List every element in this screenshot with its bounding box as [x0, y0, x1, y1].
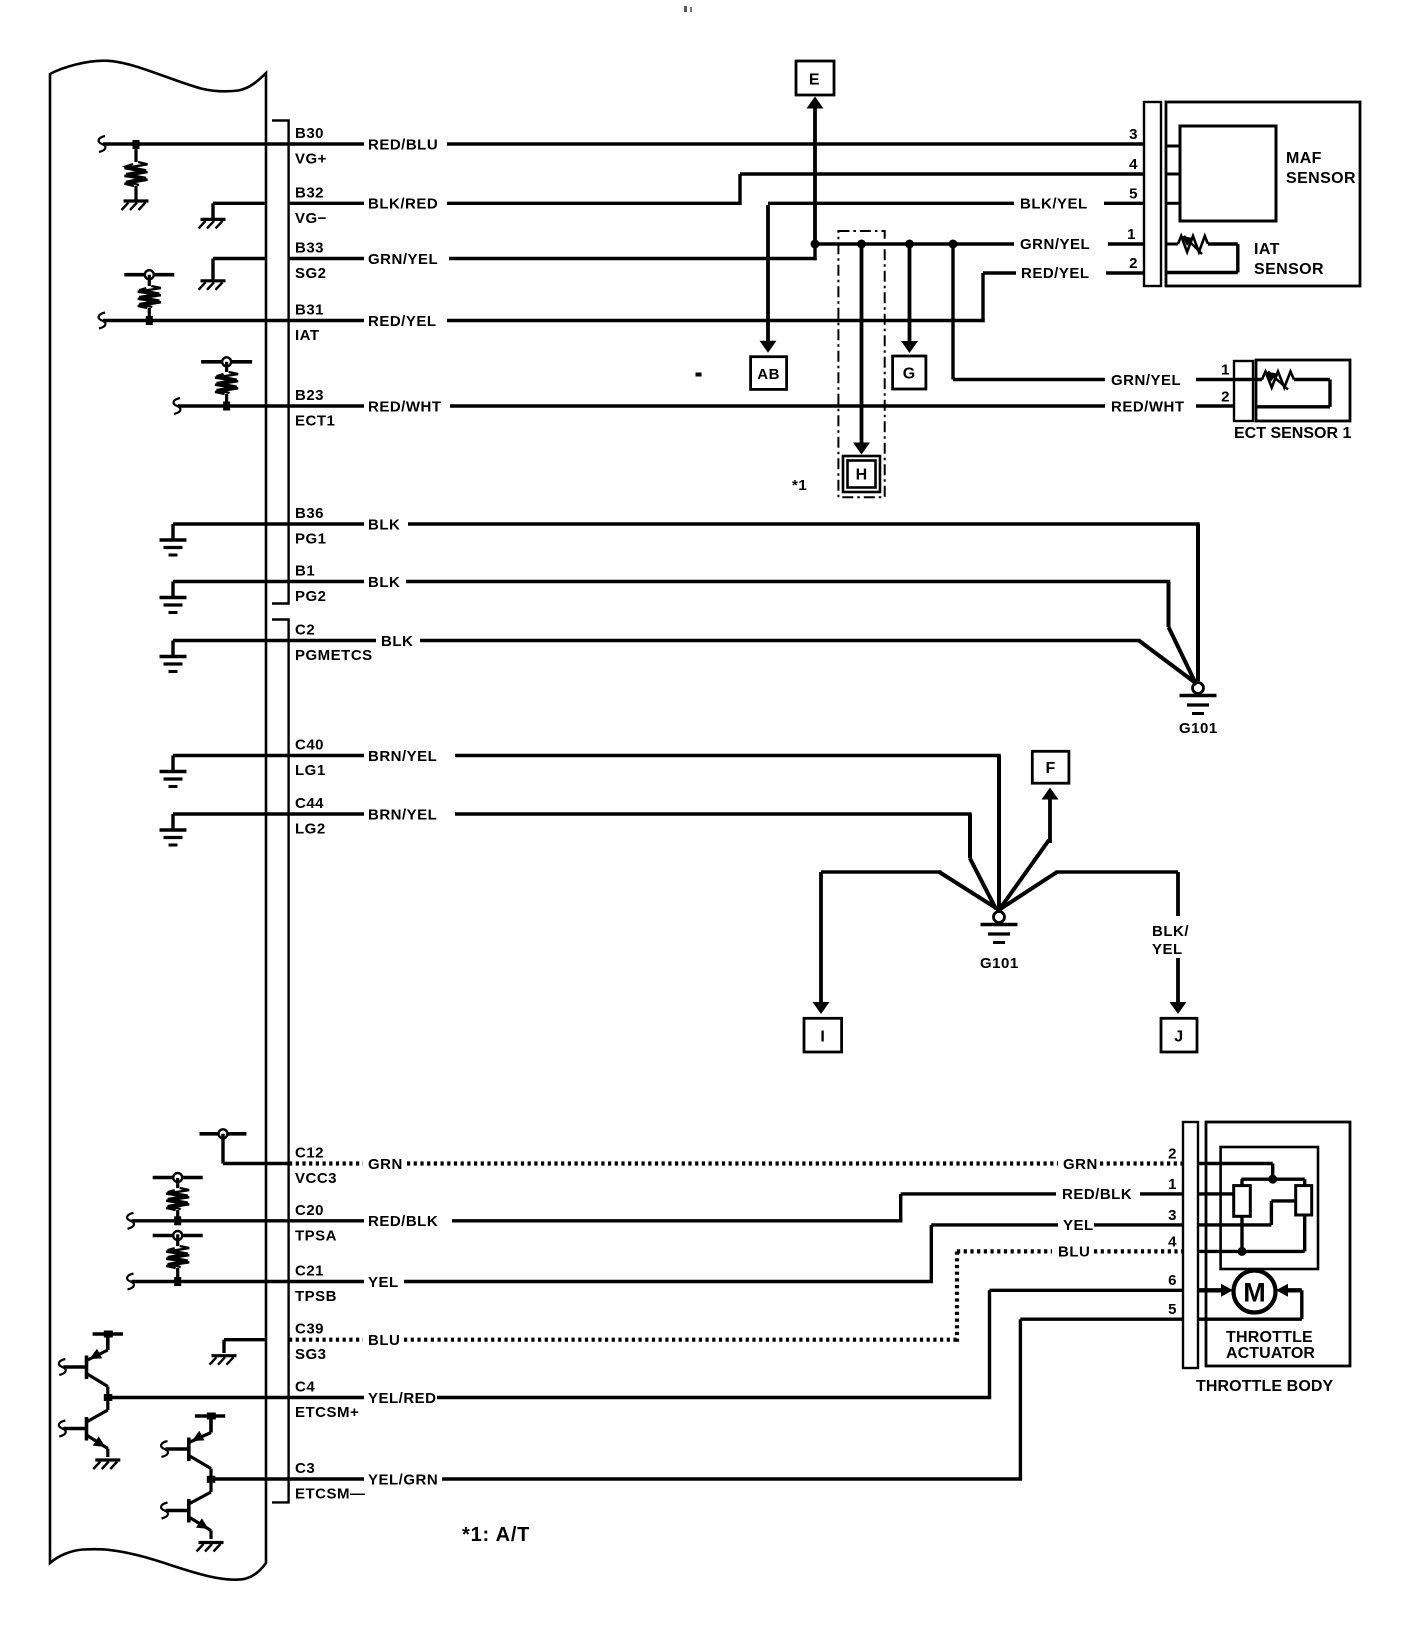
svg-text:PG2: PG2 — [295, 588, 327, 605]
svg-text:SENSOR: SENSOR — [1286, 170, 1356, 187]
svg-text:B23: B23 — [295, 387, 324, 404]
wire B31 IAT internal segment — [99, 313, 106, 329]
wire BLK/YEL to MAF pin 5 — [768, 202, 1014, 205]
node junction dots on GRN/YEL bus — [811, 240, 820, 249]
svg-text:RED/YEL: RED/YEL — [368, 313, 437, 330]
MAF sensing element — [1180, 126, 1276, 221]
svg-text:C40: C40 — [295, 737, 324, 754]
node ETCSM+ junction — [104, 1394, 113, 1401]
wire BRN/YEL LG2 to G101 — [455, 812, 972, 815]
svg-text:GRN/YEL: GRN/YEL — [1020, 236, 1090, 253]
transistor Q1 (upper, ETCSM+) — [59, 1359, 66, 1375]
svg-text:G101: G101 — [980, 955, 1019, 972]
svg-text:ECT1: ECT1 — [295, 413, 335, 430]
svg-text:YEL: YEL — [368, 1274, 399, 1291]
svg-text:VG+: VG+ — [295, 151, 327, 168]
svg-text:G101: G101 — [1179, 720, 1218, 737]
connector J — [1161, 1018, 1197, 1052]
svg-text:BLU: BLU — [368, 1332, 400, 1349]
wire C4 ETCSM+ internal segment — [108, 1396, 364, 1399]
wire C40 LG1 internal segment — [173, 754, 364, 757]
resistor on TPSA line — [166, 1188, 189, 1210]
svg-text:1: 1 — [1127, 226, 1136, 243]
wire RED/BLU to MAF pin 3 — [447, 142, 1144, 145]
svg-text:E: E — [809, 72, 820, 89]
svg-text:B33: B33 — [295, 240, 324, 257]
wire GRN dotted to throttle body pin 2 — [407, 1161, 1058, 1165]
svg-text:B30: B30 — [295, 125, 324, 142]
TPS element A — [1234, 1186, 1251, 1217]
wire BRN/YEL LG1 to G101 — [455, 754, 1001, 757]
ground for VG+ resistor (hatched) — [124, 199, 149, 202]
svg-text:3: 3 — [1129, 126, 1138, 143]
arrow to connector G — [908, 244, 912, 345]
arrow to connector E — [813, 106, 817, 244]
svg-text:B31: B31 — [295, 302, 324, 319]
svg-text:6: 6 — [1168, 1272, 1177, 1289]
svg-text:YEL/RED: YEL/RED — [368, 1390, 437, 1407]
wire branch to connector J (BLK/YEL) — [998, 872, 1057, 911]
ground PGMETCS — [171, 641, 174, 657]
supply VCC3 — [200, 1132, 247, 1136]
arrow to connector AB (BLK/YEL) — [766, 205, 770, 345]
pull-up supply for TPSA — [153, 1176, 203, 1180]
wire C3 ETCSM- internal segment — [211, 1477, 364, 1480]
svg-text:C3: C3 — [295, 1460, 315, 1477]
transistor Q2 (lower, ETCSM+) — [59, 1421, 66, 1437]
svg-text:B36: B36 — [295, 505, 324, 522]
svg-text:H: H — [856, 466, 868, 483]
svg-text:1: 1 — [1221, 362, 1230, 379]
svg-text:*1: A/T: *1: A/T — [462, 1524, 530, 1546]
wire RED/BLK step up to throttle pin 1 — [452, 1219, 902, 1222]
svg-text:C44: C44 — [295, 795, 324, 812]
svg-text:3: 3 — [1168, 1207, 1177, 1224]
svg-text:TPSB: TPSB — [295, 1288, 337, 1305]
svg-text:LG1: LG1 — [295, 762, 326, 779]
wire GRN/YEL riser to node — [449, 257, 817, 260]
transistor Q4 (lower, ETCSM-) — [161, 1503, 168, 1519]
MAF sensor connector bar — [1144, 102, 1161, 286]
svg-text:BLU: BLU — [1058, 1244, 1090, 1261]
ground G101 (center) — [994, 912, 1005, 923]
svg-text:2: 2 — [1129, 255, 1138, 272]
svg-text:PGMETCS: PGMETCS — [295, 647, 373, 664]
svg-text:THROTTLE BODY: THROTTLE BODY — [1196, 1378, 1334, 1395]
svg-text:2: 2 — [1168, 1146, 1177, 1163]
wire YEL step up to throttle pin 3 — [404, 1280, 933, 1283]
svg-text:RED/YEL: RED/YEL — [1021, 265, 1090, 282]
ECM connector bracket C (pins C2-C3) — [272, 620, 289, 1503]
svg-text:J: J — [1174, 1029, 1183, 1046]
wire B23 ECT1 internal segment — [174, 398, 181, 414]
wire C2 PGMETCS internal segment — [173, 639, 376, 642]
supply rail for ETCSM driver 1 — [93, 1332, 123, 1335]
svg-text:G: G — [903, 366, 916, 383]
svg-text:5: 5 — [1129, 185, 1138, 202]
ground SG2 (hatched) — [213, 257, 266, 260]
wire RED/WHT to ECT sensor pin 2 — [450, 404, 1105, 407]
svg-text:VCC3: VCC3 — [295, 1170, 337, 1187]
svg-text:2: 2 — [1221, 389, 1230, 406]
resistor on VG+ line — [133, 140, 140, 149]
TPS wiper wire (pin 3) — [1198, 1223, 1271, 1226]
connector I — [804, 1018, 842, 1052]
svg-text:SENSOR: SENSOR — [1254, 261, 1324, 278]
connector E — [796, 61, 834, 95]
wire C44 LG2 internal segment — [173, 812, 364, 815]
svg-text:GRN: GRN — [1063, 1156, 1098, 1173]
wire B30 VG+ internal segment — [99, 136, 106, 152]
wire B33 SG2 segment — [289, 257, 364, 260]
svg-text:SG2: SG2 — [295, 265, 327, 282]
wire B32 VG- segment to step — [289, 202, 364, 205]
svg-text:YEL/GRN: YEL/GRN — [368, 1471, 438, 1488]
wire GRN dotted segment 1 — [289, 1161, 363, 1165]
svg-text:BLK/: BLK/ — [1152, 923, 1189, 940]
TPS supply wire (pin 2) — [1198, 1162, 1273, 1165]
wire RED/YEL riser to MAF pin 2 — [447, 319, 985, 322]
svg-text:AB: AB — [757, 366, 780, 383]
ground for Q2 (hatched) — [95, 1458, 120, 1461]
svg-text:C20: C20 — [295, 1202, 324, 1219]
ECM connector bracket B (pins B30-B1) — [272, 121, 289, 604]
TPS wiper wire (pin 1) — [1198, 1192, 1234, 1195]
wire BLK PG2 to G101 — [406, 580, 1170, 583]
svg-text:BLK/YEL: BLK/YEL — [1020, 196, 1088, 213]
svg-text:BLK/RED: BLK/RED — [368, 196, 438, 213]
svg-text:C2: C2 — [295, 622, 315, 639]
svg-text:BLK: BLK — [368, 516, 400, 533]
ground LG2 — [171, 814, 174, 830]
svg-text:4: 4 — [1129, 156, 1138, 173]
TPS ground wire (pin 4) — [1198, 1250, 1305, 1253]
svg-text:M: M — [1243, 1278, 1266, 1308]
pull-up supply for ECT1 — [201, 360, 252, 364]
svg-text:BLK: BLK — [368, 574, 400, 591]
TPS element B — [1296, 1186, 1312, 1215]
ECT sensor box — [1256, 360, 1350, 421]
throttle body connector bar — [1183, 1122, 1198, 1368]
wire B36 PG1 internal segment — [173, 522, 364, 525]
ground VG- (hatched) — [213, 202, 266, 205]
wire branch to connector I — [940, 873, 1000, 911]
resistor on IAT line — [138, 286, 161, 308]
svg-text:C39: C39 — [295, 1321, 324, 1338]
connector AB — [751, 357, 787, 390]
ground SG3 (hatched) — [224, 1338, 266, 1341]
svg-text:RED/WHT: RED/WHT — [368, 398, 442, 415]
MAF sensor box — [1166, 102, 1360, 286]
svg-text:IAT: IAT — [295, 327, 320, 344]
svg-text:ETCSM—: ETCSM— — [295, 1486, 366, 1503]
TPS top bus — [1241, 1177, 1304, 1180]
arrow to connector H — [860, 244, 864, 444]
svg-text:YEL: YEL — [1152, 941, 1183, 958]
ground PG2 — [171, 582, 174, 598]
arrow to connector F — [999, 840, 1049, 910]
svg-text:RED/BLK: RED/BLK — [1062, 1186, 1132, 1203]
svg-text:GRN/YEL: GRN/YEL — [368, 251, 438, 268]
svg-text:C21: C21 — [295, 1263, 324, 1280]
resistor on TPSB line — [166, 1246, 189, 1268]
A/T option dash-dot frame (*1) — [838, 231, 884, 497]
wire YEL/GRN step up to throttle pin 5 — [442, 1477, 1022, 1480]
page artifact — [684, 6, 687, 12]
svg-text:ETCSM+: ETCSM+ — [295, 1404, 359, 1421]
svg-text:B1: B1 — [295, 563, 315, 580]
svg-text:ACTUATOR: ACTUATOR — [1226, 1345, 1315, 1362]
transistor Q3 (upper, ETCSM-) — [161, 1441, 168, 1457]
IAT sensor thermistor — [1166, 243, 1178, 246]
wire BLK PG1 to G101 — [408, 522, 1200, 525]
ground G101 (right) — [1193, 683, 1204, 694]
resistor on ECT1 line — [215, 372, 238, 394]
wire C21 TPSB internal segment — [127, 1274, 134, 1290]
svg-text:SG3: SG3 — [295, 1346, 327, 1363]
throttle position sensor box — [1221, 1147, 1318, 1269]
svg-text:BLK: BLK — [381, 633, 413, 650]
svg-text:F: F — [1045, 760, 1055, 777]
ground for Q4 (hatched) — [199, 1541, 224, 1544]
ground PG1 — [171, 524, 174, 540]
svg-text:1: 1 — [1168, 1176, 1177, 1193]
wire BLK PGMETCS to G101 — [420, 639, 1141, 642]
ground LG1 — [171, 756, 174, 772]
svg-text:C12: C12 — [295, 1145, 324, 1162]
wire BLU dotted step up to throttle pin 4 — [404, 1338, 957, 1342]
wire BLK/RED step up to MAF pin 4 — [447, 202, 740, 205]
stray dash mark — [696, 373, 702, 377]
throttle body box — [1206, 1122, 1350, 1366]
supply rail for ETCSM driver 2 — [195, 1414, 225, 1417]
wire B1 PG2 internal segment — [173, 580, 364, 583]
svg-text:*1: *1 — [792, 477, 807, 494]
ECM/PCM module boundary (torn-edge outline) — [50, 61, 266, 1580]
ECT sensor thermistor — [1262, 372, 1294, 388]
svg-text:PG1: PG1 — [295, 531, 327, 548]
svg-text:ECT SENSOR 1: ECT SENSOR 1 — [1234, 425, 1351, 442]
svg-text:IAT: IAT — [1254, 241, 1280, 258]
svg-text:GRN/YEL: GRN/YEL — [1111, 372, 1181, 389]
node ETCSM- junction — [207, 1476, 216, 1483]
svg-text:MAF: MAF — [1286, 150, 1322, 167]
svg-text:BRN/YEL: BRN/YEL — [368, 748, 437, 765]
wire BLU dotted segment 1 — [289, 1338, 363, 1342]
pull-up supply for IAT — [124, 273, 174, 277]
svg-text:VG−: VG− — [295, 210, 327, 227]
svg-text:BRN/YEL: BRN/YEL — [368, 806, 437, 823]
svg-text:4: 4 — [1168, 1234, 1177, 1251]
svg-text:GRN: GRN — [368, 1156, 403, 1173]
svg-text:C4: C4 — [295, 1379, 315, 1396]
svg-text:5: 5 — [1168, 1301, 1177, 1318]
pull-up supply for TPSB — [153, 1234, 203, 1238]
svg-text:THROTTLE: THROTTLE — [1226, 1329, 1313, 1346]
ECT sensor connector bar — [1234, 361, 1253, 421]
svg-text:TPSA: TPSA — [295, 1227, 337, 1244]
wire GRN/YEL bus to MAF pin 1 — [815, 242, 1014, 245]
connector H (double box) — [843, 456, 880, 492]
svg-text:YEL: YEL — [1063, 1217, 1094, 1234]
throttle motor M — [1198, 1288, 1226, 1292]
svg-text:I: I — [820, 1029, 825, 1046]
connector G — [893, 356, 926, 389]
svg-text:B32: B32 — [295, 184, 324, 201]
svg-text:RED/BLU: RED/BLU — [368, 136, 438, 153]
svg-text:RED/WHT: RED/WHT — [1111, 398, 1185, 415]
wire C20 TPSA internal segment — [127, 1213, 134, 1229]
svg-text:LG2: LG2 — [295, 821, 326, 838]
connector F — [1032, 751, 1069, 783]
wire YEL/RED step up to throttle pin 6 — [437, 1396, 991, 1399]
wire GRN/YEL branch to ECT sensor — [951, 244, 954, 380]
svg-text:RED/BLK: RED/BLK — [368, 1213, 438, 1230]
